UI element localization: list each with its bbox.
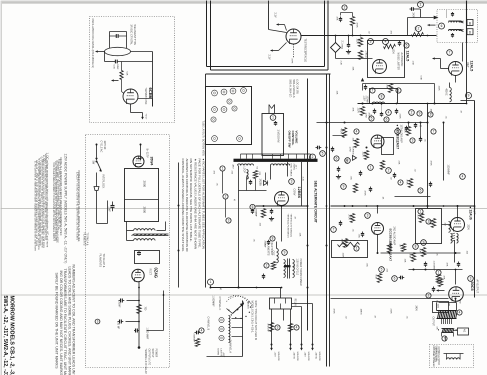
svg-text:1MEG: 1MEG xyxy=(341,239,343,245)
resistor PS R 750 xyxy=(137,305,141,314)
svg-text:2000: 2000 xyxy=(143,181,147,188)
svg-text:10K: 10K xyxy=(336,91,338,95)
svg-text:FILAMENTS: FILAMENTS xyxy=(267,243,270,256)
res 438 274 xyxy=(436,275,440,283)
svg-text:2: 2 xyxy=(266,264,268,268)
circled callout xyxy=(226,218,231,223)
circled callout xyxy=(275,325,280,330)
circled callout xyxy=(428,112,433,117)
res 255 171 xyxy=(253,171,257,179)
svg-text:ECC83/12AX7: ECC83/12AX7 xyxy=(389,242,393,262)
IFT terminal square D xyxy=(467,29,473,35)
svg-text:1000MMF: 1000MMF xyxy=(447,165,449,176)
ac arrow 2 xyxy=(140,144,142,159)
svg-text:POWER: POWER xyxy=(155,349,157,358)
cap 365 88 xyxy=(364,86,367,88)
cap 263 275 xyxy=(262,275,265,277)
svg-text:TERMINAL 4 OF RELAY: TERMINAL 4 OF RELAY xyxy=(144,349,147,375)
wire x312 303 xyxy=(312,304,314,345)
circled callout xyxy=(386,110,392,116)
loop drop wire a xyxy=(238,166,240,191)
tube layout box xyxy=(206,87,252,145)
svg-text:10K: 10K xyxy=(404,259,406,263)
circled callout xyxy=(320,151,326,157)
svg-text:9: 9 xyxy=(419,112,421,116)
speaker detail coil xyxy=(447,358,461,360)
svg-text:47K: 47K xyxy=(446,263,448,267)
circled callout xyxy=(341,184,347,190)
svg-text:FILAMENTS: FILAMENTS xyxy=(82,233,85,246)
wire coil left down xyxy=(104,52,106,62)
source terminal xyxy=(290,344,292,346)
tube detector 12AL5 xyxy=(449,62,463,76)
svg-text:+22V: +22V xyxy=(274,352,276,358)
socket V7 xyxy=(221,107,227,113)
circled callout xyxy=(310,154,316,160)
svg-text:2: 2 xyxy=(418,27,420,31)
loop top wire xyxy=(241,153,311,155)
junction dots xyxy=(263,205,265,207)
wire 255 down xyxy=(255,179,257,191)
wire x407 17-35 xyxy=(407,18,409,36)
svg-text:470K: 470K xyxy=(364,191,366,197)
resistor 366 150 xyxy=(364,151,368,160)
res 410 180 xyxy=(408,179,412,188)
switch centre dot xyxy=(237,309,239,311)
bus x427 vertical xyxy=(427,104,429,209)
output transformer secondary xyxy=(442,328,454,330)
svg-text:+24V A: +24V A xyxy=(315,352,318,360)
circled callout xyxy=(354,129,359,134)
circled callout xyxy=(410,138,415,143)
volume control box xyxy=(262,114,284,156)
circled callout xyxy=(468,276,474,282)
wire PS left bus xyxy=(107,201,109,224)
cap 433 290 xyxy=(432,288,435,290)
svg-text:1,000MMF: 1,000MMF xyxy=(433,261,435,272)
svg-text:CYCLE AC: CYCLE AC xyxy=(100,141,103,153)
svg-text:CHANNEL B: CHANNEL B xyxy=(207,317,210,331)
res in box 1 xyxy=(419,214,423,223)
svg-text:SARILY BE FOUND MARKED ON THE: SARILY BE FOUND MARKED ON THE UNIT. UNIT… xyxy=(55,273,59,370)
circled callout xyxy=(282,250,288,256)
svg-text:4: 4 xyxy=(296,326,298,330)
resistor 1meg xyxy=(358,51,362,60)
svg-text:2: 2 xyxy=(428,294,430,298)
svg-text:9: 9 xyxy=(468,94,470,98)
circled callout xyxy=(208,279,214,285)
svg-text:RECTIFIER: RECTIFIER xyxy=(270,243,272,255)
circled callout xyxy=(447,50,453,56)
resistor 352 213 xyxy=(350,214,354,223)
resistor 344 127 xyxy=(342,128,346,138)
circled callout xyxy=(342,5,347,10)
loop antenna thick bar xyxy=(234,159,318,162)
svg-text:3-30: 3-30 xyxy=(302,177,304,182)
svg-text:22K: 22K xyxy=(398,161,400,165)
svg-text:2: 2 xyxy=(411,111,413,115)
junction ps xyxy=(163,294,165,296)
svg-text:1: 1 xyxy=(420,3,422,7)
circled callout xyxy=(264,263,269,268)
junction 396 103 xyxy=(396,103,398,105)
small box right of audio tube xyxy=(382,138,394,155)
svg-text:1: 1 xyxy=(420,210,422,214)
svg-text:100MA: 100MA xyxy=(366,96,369,104)
arrow 2.1V upper xyxy=(277,24,285,26)
tube test receptacle xyxy=(286,29,301,44)
circled callout xyxy=(404,43,409,48)
wire cap row y61 xyxy=(105,61,116,63)
ground converter xyxy=(271,217,273,219)
dashed lead down from test tube xyxy=(293,44,295,58)
filter block rectangle xyxy=(125,169,159,222)
scanner grey strip top xyxy=(1,1,487,4)
voice coil box xyxy=(458,328,469,335)
wire det drop xyxy=(455,76,457,83)
arrow 50C5 grid xyxy=(437,290,445,292)
svg-text:SOURCE: SOURCE xyxy=(296,352,298,362)
svg-text:CONTROL, ALWAYS VIEWED LOOKING: CONTROL, ALWAYS VIEWED LOOKING FROM THE … xyxy=(181,159,185,252)
svg-text:NORM: NORM xyxy=(217,349,219,356)
capacitor 20mf b xyxy=(119,320,121,324)
svg-text:6: 6 xyxy=(252,205,254,209)
svg-text:220K: 220K xyxy=(404,128,406,134)
svg-text:ANT: ANT xyxy=(232,165,235,170)
svg-text:1 MEGOHM: 1 MEGOHM xyxy=(277,130,280,143)
svg-text:TRANSIST OSC: TRANSIST OSC xyxy=(144,88,147,105)
svg-text:3: 3 xyxy=(97,320,99,324)
tube noise limiter 12AL5 xyxy=(373,60,387,74)
rotary switch arc dots xyxy=(228,301,251,319)
svg-text:CHANNEL C: CHANNEL C xyxy=(218,297,221,311)
inner boundary line right xyxy=(329,74,331,367)
wire y12 xyxy=(341,12,353,14)
wire res to tube xyxy=(121,80,123,92)
circled callout xyxy=(383,39,389,45)
inner boundary line top xyxy=(206,73,331,75)
res 440 280 xyxy=(438,279,442,287)
svg-text:● 12AU6: ● 12AU6 xyxy=(469,207,473,220)
bus y122 xyxy=(317,122,428,124)
cap 394 176 xyxy=(393,174,396,176)
svg-text:12K: 12K xyxy=(299,233,301,237)
res in box 2 xyxy=(431,219,435,228)
svg-text:4: 4 xyxy=(459,311,461,315)
svg-text:100K: 100K xyxy=(357,108,359,114)
circled callout xyxy=(334,156,339,161)
socket V11 xyxy=(237,136,243,142)
cap 252 210 xyxy=(251,210,254,212)
res 47ohm a xyxy=(269,323,273,332)
svg-text:6-80: 6-80 xyxy=(113,65,115,70)
svg-text:MMF: MMF xyxy=(116,65,118,71)
tube V5 first audio xyxy=(371,135,384,148)
circled callout xyxy=(439,23,445,29)
svg-text:270K: 270K xyxy=(348,215,350,221)
audio box 331-367 xyxy=(332,241,368,258)
bus y205 right part xyxy=(331,205,475,207)
circled callout xyxy=(250,204,255,209)
filter block divider xyxy=(125,199,159,201)
svg-text:9: 9 xyxy=(423,241,425,245)
wire 335-372 y58 xyxy=(336,58,373,60)
svg-text:SEE ALTERNATE CIRCUIT: SEE ALTERNATE CIRCUIT xyxy=(314,181,318,224)
loop coil right xyxy=(271,164,290,166)
wire coil right down xyxy=(131,51,153,53)
junction xyxy=(427,35,429,37)
svg-text:33K: 33K xyxy=(352,67,354,71)
circled callout xyxy=(395,129,401,135)
channel coil A xyxy=(219,335,224,340)
svg-text:22K: 22K xyxy=(386,85,388,89)
cap 425 263 xyxy=(424,263,427,265)
wire det left xyxy=(441,68,449,70)
svg-text:TERM A 117V (MODELS: TERM A 117V (MODELS xyxy=(287,214,290,239)
svg-text:6: 6 xyxy=(397,130,399,134)
wire x434 83-103 xyxy=(434,84,436,104)
svg-text:1.5K: 1.5K xyxy=(409,254,411,259)
svg-text:INTERLOCK: INTERLOCK xyxy=(102,175,105,189)
circled callout xyxy=(426,293,431,298)
svg-text:10K: 10K xyxy=(352,138,354,142)
IF transformer dashed box xyxy=(437,10,478,43)
wire ps right x163 xyxy=(163,291,165,331)
svg-text:7: 7 xyxy=(372,89,374,93)
svg-text:+24V: +24V xyxy=(304,352,306,358)
channel bottom wire xyxy=(207,356,243,358)
IFT cap lower xyxy=(451,34,454,36)
svg-text:6.8K: 6.8K xyxy=(420,76,422,81)
cap 381 113 xyxy=(380,113,383,115)
arrow up x362 xyxy=(362,84,364,91)
svg-text:SUPPLY: SUPPLY xyxy=(151,349,153,358)
svg-text:POWER TRANSFORMER: POWER TRANSFORMER xyxy=(299,259,302,286)
wire tube6 down xyxy=(377,235,379,254)
capacitor at 348 xyxy=(348,35,350,37)
svg-text:115V AC/DC POWER SUPPLY (MODEL: 115V AC/DC POWER SUPPLY (MODELS 5W1-A, 5… xyxy=(64,154,68,264)
ot small box xyxy=(433,302,449,313)
source terminal xyxy=(312,344,314,346)
svg-text:3R OSC CRYSTAL: 3R OSC CRYSTAL xyxy=(130,25,133,46)
svg-text:5: 5 xyxy=(381,268,383,272)
svg-text:2: 2 xyxy=(388,169,390,173)
svg-text:47Ω 2W: 47Ω 2W xyxy=(267,324,269,333)
svg-text:0Z4G: 0Z4G xyxy=(154,268,159,278)
bus y252 xyxy=(381,252,461,254)
capacitor PS C xyxy=(111,205,115,207)
svg-text:47K: 47K xyxy=(336,17,338,21)
tube V6 second triode xyxy=(372,223,384,235)
arrow det xyxy=(433,58,441,60)
svg-text:7: 7 xyxy=(444,337,446,341)
junction y103 xyxy=(427,103,429,105)
svg-text:47K: 47K xyxy=(443,276,445,280)
bus y103 xyxy=(358,103,467,105)
relay drop wire c xyxy=(290,309,292,346)
svg-text:1MEG: 1MEG xyxy=(360,309,362,315)
ot leads xyxy=(436,303,438,311)
svg-text:4: 4 xyxy=(400,181,402,185)
loop drop wire b xyxy=(270,166,272,180)
svg-text:TUNING: TUNING xyxy=(247,301,249,310)
svg-text:12BE6: 12BE6 xyxy=(297,187,301,199)
svg-text:+24V B: +24V B xyxy=(293,352,295,360)
svg-text:4Ω: 4Ω xyxy=(463,329,466,332)
svg-text:6CB6: 6CB6 xyxy=(148,88,153,99)
svg-text:5W1-A, 5W4-17): 5W1-A, 5W4-17) xyxy=(289,80,292,98)
on-off switch xyxy=(97,161,102,172)
svg-text:115V: 115V xyxy=(363,96,365,102)
socket V10 xyxy=(212,136,218,142)
wire converter down xyxy=(281,206,283,242)
wire y17 top right xyxy=(408,17,434,19)
noise limiter box xyxy=(368,41,405,78)
svg-text:TUBE LAYOUT / BOTTOM VIEW: TUBE LAYOUT / BOTTOM VIEW xyxy=(202,121,205,157)
audio diode xyxy=(353,156,357,161)
svg-text:115V 60 CYCLE: 115V 60 CYCLE xyxy=(296,259,298,276)
switch arm arrow xyxy=(233,304,244,314)
svg-text:×: × xyxy=(234,198,236,202)
IFT coil lower xyxy=(449,30,463,31)
cap 338 168 xyxy=(337,168,340,170)
circled callout xyxy=(421,240,427,246)
box resistor group xyxy=(416,209,442,244)
svg-text:6: 6 xyxy=(441,24,443,28)
svg-text:OSC TRANS: OSC TRANS xyxy=(290,164,293,177)
svg-text:220K: 220K xyxy=(399,114,401,120)
output transformer primary xyxy=(437,310,457,312)
circled callout xyxy=(354,246,359,251)
svg-text:470K: 470K xyxy=(333,309,335,315)
svg-text:2: 2 xyxy=(312,155,314,159)
IFT slug arrows xyxy=(461,21,464,23)
cap 340 222 xyxy=(339,222,342,224)
svg-text:1000: 1000 xyxy=(293,264,295,270)
svg-text:220MMF: 220MMF xyxy=(193,334,195,343)
svg-text:8: 8 xyxy=(415,245,417,249)
tube converter 12BE6 xyxy=(275,192,289,206)
loop drop wire d xyxy=(301,162,303,191)
switch wire to bus xyxy=(243,301,244,304)
wire interlock down xyxy=(96,191,98,224)
wire tube right pin xyxy=(138,98,153,100)
svg-text:100K: 100K xyxy=(392,49,394,55)
cap 406 127 xyxy=(405,127,408,129)
speaker dashed box xyxy=(430,345,474,368)
svg-text:AF OUTPUT: AF OUTPUT xyxy=(476,280,479,294)
socket V4 xyxy=(241,88,247,94)
svg-text:4: 4 xyxy=(385,40,387,44)
svg-text:3: 3 xyxy=(370,40,372,44)
scan left edge shadow xyxy=(1,1,3,375)
wire stub 225 xyxy=(225,200,227,218)
svg-text:47K: 47K xyxy=(352,108,354,112)
wire x280 drop xyxy=(280,288,282,299)
svg-text:20MMF: 20MMF xyxy=(264,241,266,249)
res 379 273 xyxy=(377,274,381,283)
wire det to IFT xyxy=(462,43,464,62)
IFT slug dashed line xyxy=(446,11,448,18)
svg-text:LOOP: LOOP xyxy=(243,167,245,174)
svg-text:● ECC83/12AX7: ● ECC83/12AX7 xyxy=(396,125,400,150)
resistor 51K xyxy=(121,62,123,71)
relay box xyxy=(270,298,292,309)
resistor at 362 y106 xyxy=(360,107,364,116)
cap 220mmf xyxy=(196,331,198,335)
top right cap 240V xyxy=(411,7,413,11)
IFT coil upper xyxy=(449,21,463,22)
socket V1 xyxy=(212,90,218,96)
circled callout xyxy=(223,194,228,199)
svg-text:6: 6 xyxy=(394,277,396,281)
relay drop wire b xyxy=(283,309,285,321)
svg-text:7: 7 xyxy=(433,130,435,134)
svg-text:CHANNEL A: CHANNEL A xyxy=(229,340,232,354)
wire y298 xyxy=(331,298,449,300)
svg-text:TEST RECEPTACLE: TEST RECEPTACLE xyxy=(304,39,307,63)
res 390 85 xyxy=(388,84,392,93)
fat capacitor bar xyxy=(284,265,291,267)
cap 420 140 xyxy=(419,138,422,140)
circled callout xyxy=(220,166,225,171)
svg-text:12AL5: 12AL5 xyxy=(406,51,410,62)
coil 3.9 xyxy=(449,222,451,233)
tube V3 0Z4G rectifier xyxy=(132,269,144,281)
wire to test tube xyxy=(268,1,270,30)
svg-text:1: 1 xyxy=(210,280,212,284)
junction wire y287 xyxy=(211,287,282,289)
res 413 252 xyxy=(411,253,415,262)
interlock symbol xyxy=(96,173,98,187)
cap 400 277 xyxy=(400,276,402,280)
capacitor 1000mmf ps xyxy=(135,329,137,333)
ot lead wires xyxy=(439,302,457,304)
bus coil bumps xyxy=(373,102,385,103)
svg-text:2.2K: 2.2K xyxy=(340,61,342,66)
svg-text:TO LT: TO LT xyxy=(145,114,147,121)
IFT terminal square B xyxy=(467,20,473,26)
loop coil left xyxy=(238,164,254,166)
svg-text:7: 7 xyxy=(333,228,335,232)
svg-text:6: 6 xyxy=(386,118,388,122)
resistor 355 183 xyxy=(353,184,357,193)
resistor in nl box xyxy=(384,44,396,48)
res 389 243 xyxy=(387,244,391,253)
cap 458 263 xyxy=(457,263,460,265)
svg-text:3: 3 xyxy=(291,180,293,184)
circled callout xyxy=(270,115,276,121)
svg-text:1: 1 xyxy=(356,247,358,251)
svg-text:8: 8 xyxy=(272,237,274,241)
shield box double line bottom xyxy=(207,66,325,68)
circled callout xyxy=(418,188,423,193)
wire y83 xyxy=(363,83,435,85)
tube V8 50C5 output xyxy=(449,287,464,302)
svg-text:470K: 470K xyxy=(356,23,358,29)
circled callout xyxy=(418,209,423,214)
cap 250 182 xyxy=(249,181,252,183)
svg-text:TERM B 117V (5W1&2): TERM B 117V (5W1&2) xyxy=(290,214,292,237)
vol cap xyxy=(274,122,277,124)
svg-text:20 MF: 20 MF xyxy=(117,323,119,330)
svg-text:1: 1 xyxy=(438,271,440,275)
capacitor above rect tube xyxy=(137,252,141,254)
svg-text:5: 5 xyxy=(322,152,324,156)
arrow into coil xyxy=(96,51,105,53)
circled callout xyxy=(289,179,295,185)
rectifier tube V2 35W4 xyxy=(133,156,144,167)
